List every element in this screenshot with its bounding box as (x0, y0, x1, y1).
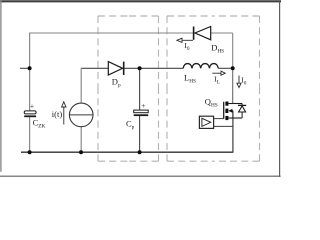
inductor L_HS (183, 64, 218, 69)
wire: right vertical to MOSFET drain (232, 68, 234, 103)
svg-text:+: + (141, 101, 145, 110)
wire: driver to source node (214, 125, 233, 127)
wire: driver to gate (214, 118, 225, 120)
capacitor C_ZK (24, 102, 45, 130)
capacitor C_p (126, 101, 148, 131)
border frame (0, 0, 281, 176)
gate driver U1 (199, 116, 233, 128)
wire: input stub top (20, 67, 30, 69)
wire: mid rail from current source to D_p (81, 67, 108, 69)
arrow I_0 (diode current, pointing left) (177, 38, 193, 52)
node: C_ZK bottom junction (28, 150, 32, 154)
node: C_p bottom junction (138, 150, 142, 154)
gate bar (223, 102, 225, 119)
svg-text:+: + (30, 102, 34, 111)
node: C_p top junction (138, 66, 142, 70)
wire: bottom rail (21, 151, 233, 153)
source lead (228, 117, 242, 119)
node: input junction top (28, 66, 32, 70)
diode D_p (108, 62, 123, 89)
node: switch-node junction (231, 66, 235, 70)
wire: mid rail L_HS to right vertical (218, 67, 233, 69)
body diode (241, 104, 243, 106)
dashed module box A (parallel diode / capacitor cell) (98, 16, 159, 161)
arrow i(t) (52, 102, 66, 125)
wire: C_p branch bottom (139, 116, 141, 153)
wire: C_p branch top (139, 68, 141, 110)
wire: C_ZK branch bottom (29, 117, 31, 152)
transistor Q_HS (MOSFET with body diode) (205, 97, 246, 121)
wire: top rail right segment (211, 32, 233, 34)
dashed module box B (HS commutation cell) (167, 16, 260, 161)
wire: left vertical (C_ZK branch top) (29, 33, 31, 111)
diode D_HS (194, 27, 225, 55)
wire: right vertical upper (232, 33, 234, 68)
channel segments (225, 102, 228, 106)
wire: mid rail D_p to L_HS (124, 67, 183, 69)
wire: current source bottom lead (80, 127, 82, 153)
wire: MOSFET source down to bottom rail (232, 118, 234, 152)
drain lead (228, 103, 242, 105)
arrow I_L (inductor current, pointing right) (212, 71, 225, 85)
wire: current source top lead (80, 68, 82, 103)
node: current source bottom junction (79, 150, 83, 154)
current source i(t) (69, 103, 93, 127)
body arrow (229, 110, 233, 112)
arrow I_0 (output current, pointing down) (237, 76, 247, 88)
svg-text:i(t): i(t) (52, 109, 63, 119)
wire: top rail left segment (30, 32, 194, 34)
